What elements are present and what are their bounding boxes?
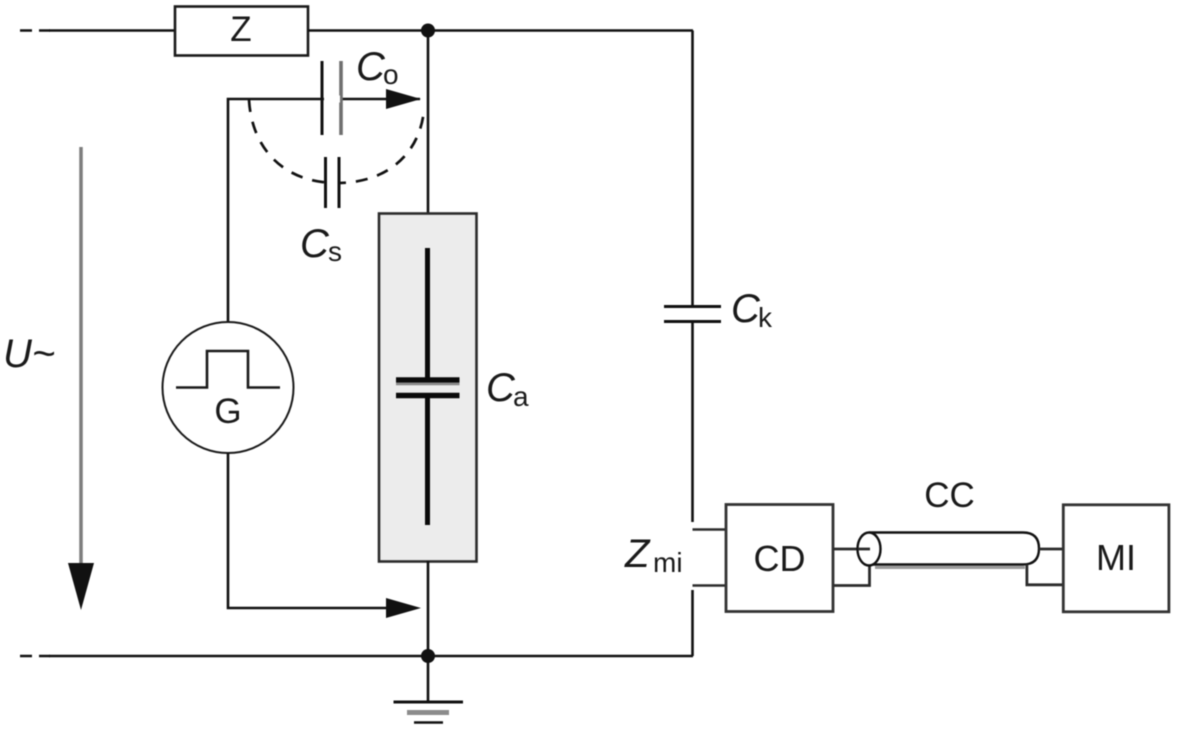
Ca plates bbox=[396, 377, 460, 383]
coax cable end ellipse bbox=[858, 533, 881, 566]
svg-text:o: o bbox=[383, 59, 399, 90]
wire bottom dashed lead-in bbox=[20, 655, 50, 658]
arrow at Ca bottom node bbox=[386, 598, 421, 618]
Ca top electrode bbox=[425, 248, 430, 378]
arrow on C0 wire bbox=[386, 89, 421, 109]
impedance Z1 box bbox=[175, 7, 308, 56]
Ca bottom electrode bbox=[425, 398, 430, 525]
coupling capacitor Ck plates bbox=[664, 305, 721, 308]
svg-text:C: C bbox=[486, 366, 516, 410]
cable right bottom path bbox=[1027, 565, 1063, 585]
capacitor C0 plates bbox=[321, 61, 324, 135]
wire top (Z to right corner) bbox=[308, 29, 693, 32]
svg-text:CD: CD bbox=[754, 538, 806, 579]
pulse symbol bbox=[176, 351, 280, 388]
coupling device CD box bbox=[726, 505, 833, 612]
svg-text:Z: Z bbox=[230, 10, 251, 49]
svg-text:C: C bbox=[300, 222, 330, 266]
coax cable shadow bbox=[875, 566, 1025, 569]
svg-text:mi: mi bbox=[653, 547, 683, 578]
wire right vertical lower bbox=[691, 322, 694, 522]
node bottom junction bbox=[421, 649, 435, 663]
CD to cable top stub bbox=[833, 548, 869, 551]
svg-text:CC: CC bbox=[924, 476, 975, 515]
capacitor Cs plates bbox=[328, 155, 338, 208]
svg-text:Z: Z bbox=[624, 532, 651, 576]
Zmi stub upper bbox=[693, 528, 727, 531]
svg-text:G: G bbox=[214, 392, 241, 431]
CD to cable bottom path bbox=[833, 564, 870, 586]
measuring instrument MI box bbox=[1063, 505, 1169, 612]
cable right to MI stub bbox=[1039, 548, 1063, 551]
svg-text:a: a bbox=[513, 381, 529, 412]
wire right vertical to bottom bbox=[691, 590, 694, 656]
wire below G bbox=[228, 453, 388, 608]
ground bbox=[427, 656, 430, 702]
wire bottom bbox=[49, 655, 693, 658]
coax cable CC body bbox=[869, 533, 1039, 565]
wire top-left to Z bbox=[49, 29, 175, 32]
Zmi stub lower bbox=[693, 584, 727, 587]
svg-text:MI: MI bbox=[1096, 537, 1136, 578]
svg-text:C: C bbox=[731, 287, 761, 331]
wire below Ca bbox=[427, 561, 430, 656]
test object Ca box bbox=[379, 214, 477, 562]
svg-text:U~: U~ bbox=[3, 332, 55, 376]
source G circle bbox=[163, 322, 294, 453]
wire junction down to Ca bbox=[427, 31, 430, 215]
U~ source arrow bbox=[79, 147, 83, 575]
svg-text:C: C bbox=[356, 45, 386, 89]
wire top-left dashed lead-in bbox=[20, 29, 50, 32]
stub tip inside ellipse bbox=[858, 548, 870, 551]
dashed arc stray capacitance path bbox=[249, 100, 424, 183]
svg-text:s: s bbox=[328, 236, 342, 267]
wire left branch corner down to G bbox=[228, 99, 420, 322]
svg-text:k: k bbox=[758, 302, 773, 333]
wire right vertical upper bbox=[691, 31, 694, 307]
node top junction bbox=[421, 24, 435, 38]
